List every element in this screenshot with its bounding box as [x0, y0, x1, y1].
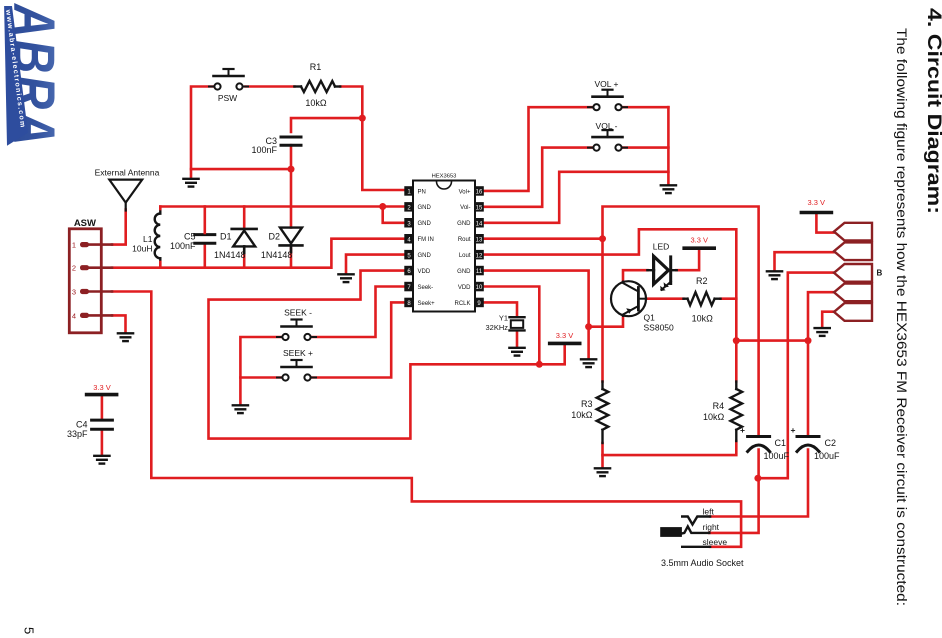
- diode D2 1N4148: [280, 228, 303, 252]
- pin 5 GND: [404, 250, 431, 260]
- ground Q1 emitter: [581, 359, 596, 367]
- svg-text:3.3 V: 3.3 V: [808, 198, 826, 207]
- wire IC pin8 to SEEK+: [312, 302, 406, 377]
- svg-text:right: right: [703, 522, 720, 532]
- svg-text:R4: R4: [713, 401, 725, 411]
- ground VOL buttons: [661, 185, 676, 193]
- wire IC pin14 GND to vol ground: [483, 172, 668, 223]
- node ASW pin 1: [72, 241, 112, 250]
- capacitor C5 100nF: [195, 207, 215, 244]
- capacitor C2 100uF polarized: [797, 437, 819, 452]
- resistor R2 10k: [684, 292, 721, 305]
- svg-text:LED: LED: [653, 242, 670, 252]
- wire IC pin10 VDD: [483, 287, 539, 365]
- resistor R4 10k: [731, 382, 743, 442]
- svg-text:GND: GND: [418, 253, 432, 259]
- pin 15 Vol-: [460, 202, 484, 212]
- wire R2 right stub: [721, 297, 737, 300]
- svg-text:3.3 V: 3.3 V: [556, 331, 574, 340]
- pin 9 RCLK: [454, 298, 483, 308]
- svg-text:SS8050: SS8050: [644, 323, 675, 333]
- wire SEEK+ left stub: [240, 376, 281, 379]
- wire D2 bottom stub: [290, 249, 293, 268]
- svg-text:3.3 V: 3.3 V: [93, 383, 111, 392]
- svg-text:13: 13: [476, 237, 483, 243]
- svg-text:GND: GND: [457, 269, 471, 275]
- svg-text:1: 1: [72, 241, 76, 250]
- svg-text:4: 4: [72, 311, 76, 320]
- svg-text:32KHz: 32KHz: [485, 323, 508, 332]
- svg-text:SEEK -: SEEK -: [284, 308, 312, 318]
- wire ground stem PSW rail: [190, 169, 193, 178]
- ground ASW pin4: [118, 333, 133, 341]
- node junction C3 bottom / PSW ground rail: [288, 166, 295, 173]
- op-amp U1 HEX3653 IC body: [413, 174, 475, 312]
- svg-text:GND: GND: [418, 205, 432, 211]
- wire B pin4 to C2 top: [808, 292, 834, 435]
- pin 6 VDD: [404, 266, 431, 276]
- svg-text:The following figure represent: The following figure represents how the …: [894, 28, 909, 606]
- wire Q1 emitter to ground node: [589, 316, 623, 327]
- wire B pin1 to 3.3V: [816, 214, 834, 232]
- svg-text:12: 12: [476, 253, 483, 259]
- svg-text:1N4148: 1N4148: [214, 250, 246, 260]
- pushbutton VOL+: [588, 79, 627, 110]
- svg-text:Y1: Y1: [499, 314, 508, 323]
- svg-text:100nF: 100nF: [170, 241, 196, 251]
- svg-text:33pF: 33pF: [67, 429, 88, 439]
- capacitor C1 100uF polarized: [748, 437, 770, 452]
- wire Y1 bottom to ground: [516, 332, 519, 347]
- svg-text:2: 2: [72, 264, 76, 273]
- svg-text:D1: D1: [220, 232, 232, 242]
- svg-text:R3: R3: [581, 399, 593, 409]
- svg-text:Seek-: Seek-: [418, 285, 434, 291]
- crystal Y1 32KHz: [510, 317, 525, 330]
- 3.5mm audio socket: [661, 517, 710, 547]
- wire IC pin7 to SEEK-: [312, 287, 406, 338]
- pin 2 GND: [404, 202, 431, 212]
- svg-text:3: 3: [72, 288, 76, 297]
- antenna External Antenna: [109, 180, 142, 211]
- svg-text:B: B: [877, 269, 883, 278]
- wire ASW pin2 rail to IC pin4 FM IN: [112, 239, 405, 268]
- ground SEEK buttons: [233, 405, 248, 413]
- wire VOL- right: [623, 146, 668, 149]
- svg-text:C2: C2: [825, 438, 837, 448]
- wire D1 bottom stub: [243, 252, 246, 268]
- wire IC pin9 RCLK to Y1: [483, 302, 517, 316]
- svg-text:16: 16: [476, 190, 483, 196]
- ground PSW rail: [183, 179, 198, 187]
- ground B pin2: [767, 271, 782, 279]
- wire ASW pin1 to antenna: [112, 210, 126, 245]
- svg-text:1N4148: 1N4148: [261, 250, 293, 260]
- resistor R1 10k: [294, 81, 340, 92]
- inductor L1 10uH: [155, 207, 161, 268]
- wire R1 right to IC pin1: [340, 87, 405, 191]
- svg-text:4. Circuit Diagram:: 4. Circuit Diagram:: [923, 8, 942, 214]
- svg-text:VDD: VDD: [418, 269, 431, 275]
- svg-text:10uH: 10uH: [132, 243, 152, 253]
- LED: [647, 256, 676, 291]
- wire IC pin5 GND to ground: [346, 255, 405, 274]
- node junction top rail pin2/pin3: [379, 203, 386, 210]
- svg-text:Rout: Rout: [458, 237, 471, 243]
- pin 11 GND: [457, 266, 484, 276]
- wire C4 bottom to ground: [101, 431, 104, 455]
- wire IC pin11 GND to ground: [483, 271, 589, 359]
- node junction B4/C2: [805, 337, 812, 344]
- wire IC pin6 VDD route to 3.3V: [209, 271, 565, 439]
- svg-text:GND: GND: [457, 221, 471, 227]
- pin 16 Vol+: [459, 186, 484, 196]
- wire Q1 base to R2: [646, 297, 683, 300]
- svg-text:+: +: [740, 425, 745, 435]
- pin 12 Lout: [459, 250, 484, 260]
- wire B pin2 to ground: [775, 252, 835, 270]
- svg-text:FM IN: FM IN: [418, 237, 434, 243]
- node junction Rout/R3: [599, 235, 606, 242]
- svg-text:VDD: VDD: [458, 285, 471, 291]
- svg-text:R1: R1: [310, 62, 322, 72]
- svg-text:VOL +: VOL +: [594, 79, 618, 89]
- svg-text:15: 15: [476, 206, 483, 212]
- svg-text:11: 11: [476, 269, 483, 275]
- svg-text:10kΩ: 10kΩ: [703, 412, 725, 422]
- pushbutton SEEK-: [277, 308, 316, 341]
- svg-text:D2: D2: [268, 232, 280, 242]
- wire ASW pin4 to ground: [112, 315, 126, 332]
- svg-text:R2: R2: [696, 276, 708, 286]
- svg-text:External Antenna: External Antenna: [95, 168, 160, 178]
- svg-text:C1: C1: [775, 438, 787, 448]
- wire C1 bottom to right contact: [709, 450, 758, 533]
- wire IC pin16 to VOL+: [483, 107, 592, 191]
- wire B pin5 to ground: [822, 312, 834, 328]
- wire B pin3 to C1 bottom: [758, 273, 834, 479]
- pushbutton SEEK+: [277, 348, 316, 381]
- wire VOL+ right: [623, 106, 668, 109]
- wire Q1 collector to LED anode: [623, 270, 648, 281]
- node junction Lout/B4 branch: [733, 337, 740, 344]
- svg-text:100uF: 100uF: [764, 451, 790, 461]
- svg-text:Vol+: Vol+: [459, 189, 471, 195]
- pin 8 Seek+: [404, 298, 435, 308]
- node ASW pin 2: [72, 264, 112, 273]
- svg-text:SEEK +: SEEK +: [283, 348, 313, 358]
- pushbutton PSW: [209, 69, 248, 103]
- svg-text:Lout: Lout: [459, 253, 471, 259]
- svg-text:100nF: 100nF: [251, 145, 277, 155]
- connector ASW: [69, 218, 101, 333]
- svg-text:+: +: [791, 425, 796, 435]
- wire C4 top to 3.3V: [101, 396, 104, 418]
- node junction C1 bottom/right: [754, 475, 761, 482]
- ABRA logo: [1, 2, 66, 147]
- ground Y1: [509, 348, 524, 356]
- wire R3/R4 bottoms: [603, 441, 737, 455]
- svg-text:3.5mm Audio Socket: 3.5mm Audio Socket: [661, 558, 744, 568]
- svg-text:ASW: ASW: [74, 218, 96, 229]
- diode D1 1N4148: [232, 207, 257, 254]
- pin 7 Seek-: [404, 282, 433, 292]
- wire Rout rail to R3 and C1: [603, 207, 759, 436]
- capacitor C4 33pF: [92, 420, 113, 429]
- wire LED cathode to 3.3V: [676, 250, 699, 270]
- power 3.3V at LED: [684, 236, 714, 249]
- wire PSW left to ground rail: [191, 87, 291, 170]
- wire IC pin15 to VOL-: [483, 148, 592, 207]
- svg-text:GND: GND: [418, 221, 432, 227]
- svg-text:RCLK: RCLK: [454, 301, 470, 307]
- connector B pin 5: [834, 303, 872, 321]
- ground C4: [94, 456, 109, 464]
- svg-text:3.3 V: 3.3 V: [690, 236, 708, 245]
- ground B pin5: [815, 328, 830, 336]
- power 3.3V at C4: [87, 383, 117, 395]
- connector B pin 1: [834, 223, 872, 241]
- svg-text:Seek+: Seek+: [418, 301, 436, 307]
- wire SEEK- left to ground: [240, 337, 281, 405]
- svg-text:10: 10: [476, 285, 483, 291]
- power 3.3V mid VDD: [550, 331, 580, 343]
- ground IC pin5: [338, 274, 353, 282]
- svg-text:sleeve: sleeve: [703, 537, 728, 547]
- pin 13 Rout: [458, 234, 484, 244]
- svg-text:100uF: 100uF: [814, 451, 840, 461]
- wire PSW right to R1: [246, 85, 295, 88]
- node ASW pin 3: [72, 288, 112, 297]
- transistor Q1 SS8050: [611, 281, 646, 316]
- pin 14 GND: [457, 218, 484, 228]
- wire ASW pin3 to sleeve contact: [112, 292, 741, 547]
- wire C3 bottom to D2 top: [290, 145, 293, 227]
- wire IC pin12 Lout to R2/R4: [483, 229, 736, 381]
- pin 3 GND: [404, 218, 431, 228]
- svg-text:Q1: Q1: [644, 313, 656, 323]
- svg-text:10kΩ: 10kΩ: [305, 98, 327, 108]
- ground R3 bottom: [595, 468, 610, 476]
- svg-text:10kΩ: 10kΩ: [571, 410, 593, 420]
- wire B pin4 branch to Lout net: [736, 339, 808, 342]
- node junction emitter/pin11 ground: [585, 323, 592, 330]
- svg-text:Vol-: Vol-: [460, 205, 470, 211]
- svg-text:PN: PN: [418, 189, 426, 195]
- svg-text:5: 5: [22, 627, 37, 634]
- pin 1 PN: [404, 186, 426, 196]
- capacitor C3 100nF: [281, 137, 301, 145]
- connector B pin 4: [834, 284, 872, 302]
- resistor R3 10k: [597, 382, 609, 444]
- node junction VDD 3.3V: [536, 361, 543, 368]
- svg-text:14: 14: [476, 221, 483, 227]
- wire C2 bottom to left contact: [710, 450, 808, 517]
- pin 10 VDD: [458, 282, 484, 292]
- wire junction branch to C3 top: [291, 118, 362, 132]
- wire branch to IC pin3: [383, 207, 405, 223]
- pin 4 FM IN: [404, 234, 434, 244]
- wire R3 bottom ground stem: [601, 455, 604, 467]
- svg-text:PSW: PSW: [218, 93, 237, 103]
- connector B pin 3: [834, 264, 872, 282]
- pushbutton VOL-: [588, 121, 627, 151]
- node junction R1/pin1/C3: [359, 115, 366, 122]
- connector B pin 2: [834, 242, 872, 260]
- svg-text:HEX3653: HEX3653: [432, 174, 457, 180]
- wire top rail to IC pin2: [160, 205, 405, 208]
- power 3.3V at B connector: [801, 198, 831, 213]
- node ASW pin 4: [72, 311, 112, 320]
- wire IC pin13 Rout: [483, 237, 603, 240]
- svg-text:VOL -: VOL -: [596, 121, 618, 131]
- wire VOL buttons to ground: [667, 107, 670, 184]
- wire C5 bottom stub: [204, 245, 207, 268]
- svg-text:10kΩ: 10kΩ: [692, 313, 714, 323]
- svg-text:left: left: [703, 506, 715, 516]
